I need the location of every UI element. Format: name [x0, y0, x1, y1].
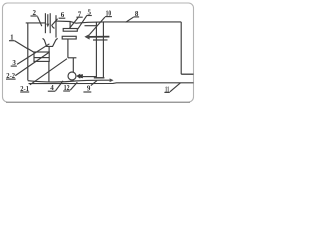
label 1 leader	[14, 41, 27, 49]
tank wall (1)	[27, 23, 29, 81]
dip tube (6)	[55, 15, 57, 37]
right downpipe	[180, 22, 182, 74]
label 11 leader	[170, 83, 181, 92]
label 5 leader	[78, 16, 87, 29]
label 9 leader	[91, 81, 97, 86]
label 3 leader	[17, 44, 49, 65]
tank bottom	[28, 80, 110, 82]
pump circle (12)	[68, 72, 76, 80]
plate 2 (bottom electrode)	[62, 36, 76, 39]
label 7 leader	[70, 18, 79, 29]
svg-text:7: 7	[78, 10, 82, 18]
pump discharge pipe	[83, 76, 97, 78]
svg-text:4: 4	[50, 84, 54, 92]
flow arrowhead right (tank bottom)	[110, 78, 114, 82]
svg-text:8: 8	[135, 10, 139, 18]
svg-text:2-2: 2-2	[6, 73, 15, 80]
svg-text:3: 3	[12, 59, 16, 67]
right outlet stub	[181, 73, 193, 75]
lower right pipe (11)	[29, 82, 194, 85]
cup stem	[48, 46, 50, 52]
funnel side	[28, 49, 34, 53]
svg-text:11: 11	[165, 85, 170, 93]
svg-text:2: 2	[32, 9, 36, 17]
drain pipe	[48, 61, 50, 82]
label underlines	[9, 40, 14, 42]
label 2 leader	[38, 17, 42, 27]
box inner line	[34, 57, 49, 59]
lower rod	[67, 39, 69, 58]
left flow arrow (10)	[89, 36, 109, 38]
label 6 leader	[52, 19, 58, 29]
label 12 leader	[70, 82, 77, 90]
bracket	[68, 57, 77, 59]
pump stem	[72, 58, 74, 72]
line under arrow	[93, 39, 108, 41]
label 10 leader	[90, 17, 106, 35]
svg-text:1: 1	[10, 33, 14, 41]
label 4 leader	[56, 81, 64, 91]
column (riser pipe)	[95, 22, 97, 77]
svg-text:5: 5	[87, 9, 91, 17]
feed tube (2/6)	[44, 13, 46, 33]
border frame	[3, 3, 194, 102]
plate 1 (top electrode)	[63, 29, 77, 32]
pump nozzle	[76, 74, 83, 79]
down arrow in tube	[47, 14, 49, 24]
outlet box	[34, 52, 49, 61]
tank lid left	[26, 22, 46, 24]
shelf on column	[85, 25, 97, 27]
svg-text:12: 12	[64, 84, 70, 92]
svg-text:6: 6	[61, 11, 65, 19]
svg-text:2-1: 2-1	[20, 86, 29, 93]
column bottom cap	[94, 77, 105, 79]
label 2-2 leader	[15, 52, 49, 75]
top pipe (8)	[56, 21, 181, 23]
svg-text:9: 9	[87, 85, 91, 93]
cup (3)	[43, 38, 58, 46]
svg-text:10: 10	[106, 10, 112, 18]
hanger rod	[69, 22, 71, 29]
label 8 leader	[126, 17, 134, 22]
label 2-1 leader	[30, 59, 67, 85]
